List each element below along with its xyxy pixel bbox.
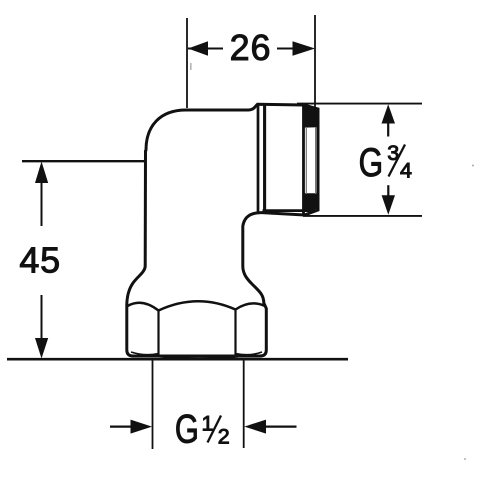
hex nut right face bottom arc [236,352,263,355]
hex nut face divider left [157,311,159,355]
dim 26 left extension line [186,18,188,108]
svg-text:2: 2 [218,425,230,449]
dim G1/2 left arrow [110,426,134,428]
svg-text:45: 45 [19,240,61,281]
hex nut left face bottom arc [131,352,159,355]
dim G3/4 up arrow [382,104,396,123]
dim 45 up arrow [35,162,48,184]
elbow fitting body outline [127,104,318,356]
hex nut middle face top arc [159,301,236,310]
scan speck right side [472,165,474,167]
hex nut left face top arc [128,303,159,311]
dim 26 right arrow [277,48,294,50]
thread band thin line left [305,127,307,194]
scan speck near left extension line [190,63,192,70]
dim 26 left arrow [188,48,223,50]
collar left edge line (outer) [257,105,260,213]
collar left edge line (inner) [263,105,266,213]
svg-text:4: 4 [400,158,412,182]
dim 45 down arrow [35,338,48,359]
dim G1/2 right extension line [243,360,245,448]
dim 26 right extension line [314,15,316,122]
thread band thin line right [315,127,317,194]
dim G1/2 right arrow [263,426,297,428]
thread chamfer top black block [305,106,319,128]
hex nut middle face bottom arc [152,356,246,359]
svg-text:G: G [175,408,199,452]
dim 45 bottom extension line [7,358,348,361]
svg-text:26: 26 [230,27,272,68]
dim G1/2 left extension line [152,360,154,449]
scan speck bottom right [464,458,466,460]
dim 45 top extension line [22,160,146,162]
thread end face line [302,105,305,215]
collar bottom edge reinforcement [263,209,317,212]
dim G3/4 top extension line [297,103,422,105]
hex nut right face top arc [236,303,267,309]
svg-text:G: G [359,141,384,185]
hex nut face divider right [234,310,236,355]
dim G3/4 bottom extension line [303,215,422,217]
dim G3/4 down arrow [382,195,395,215]
thread chamfer bottom black block [305,193,319,211]
